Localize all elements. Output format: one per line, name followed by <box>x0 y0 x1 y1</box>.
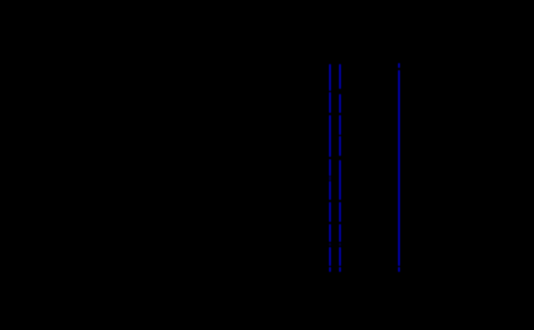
wire B seg8 <box>339 247 341 266</box>
wire B seg4 <box>339 136 341 156</box>
wire B seg6 <box>339 202 341 222</box>
wire A seg3 <box>329 115 331 157</box>
wire B seg5 <box>339 160 341 200</box>
wire B seg2 <box>339 94 341 113</box>
wire A seg10 <box>329 267 331 272</box>
wire A seg2 <box>329 92 331 113</box>
wire A seg8 <box>329 224 331 242</box>
wire B seg9 <box>339 267 341 272</box>
wire A seg6 <box>329 181 331 200</box>
wire B seg7b dim <box>339 243 341 245</box>
wire C seg1 <box>398 63 400 68</box>
vertical blue rule B (second column separator), x~338.8 <box>0 0 534 1</box>
wire A seg1 <box>329 64 331 91</box>
wire A seg4 <box>329 159 331 176</box>
wire B seg1 <box>339 64 341 89</box>
wire A seg5 dim <box>329 176 331 181</box>
vertical blue rule C (right column separator), x~397.8 <box>0 0 534 1</box>
wire C seg3 <box>398 267 400 272</box>
wire A seg9 <box>329 247 331 266</box>
vertical blue rule A (left column separator), x~328.6 <box>0 0 534 1</box>
wire C seg2 <box>398 70 400 266</box>
wire A seg8b dim <box>329 243 331 245</box>
wire B seg3 <box>339 115 341 135</box>
wire B seg7 <box>339 224 341 242</box>
wire A seg7 <box>329 202 331 222</box>
